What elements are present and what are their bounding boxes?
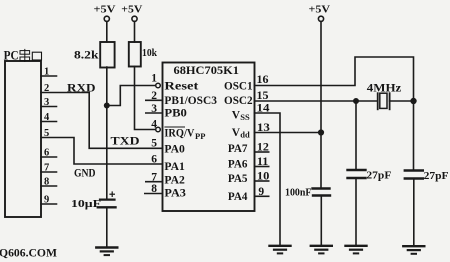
svg-text:1: 1 (44, 67, 49, 78)
wire left 27pF cap lead (355, 101, 357, 170)
svg-text:3: 3 (151, 103, 157, 115)
wire C2 to ground (320, 196, 322, 246)
wire Vss: U1 pin14 to ground (255, 113, 281, 246)
svg-text:100nF: 100nF (285, 188, 312, 199)
svg-text:Reset: Reset (164, 81, 198, 93)
svg-text:8: 8 (44, 177, 49, 188)
svg-text:4: 4 (151, 119, 157, 131)
label Vss (232, 110, 250, 123)
ground under Vss (270, 246, 291, 254)
ground under C3 (346, 246, 367, 254)
ground under C2 (311, 246, 332, 254)
svg-text:Q606.COM: Q606.COM (0, 246, 57, 260)
svg-text:PA6: PA6 (228, 159, 248, 171)
svg-text:+5V: +5V (309, 5, 331, 16)
wire reset tap to U1 pin1 (107, 86, 156, 106)
svg-text:IRQ/V: IRQ/V (164, 128, 195, 140)
svg-text:PA7: PA7 (228, 143, 248, 155)
wire Vdd: U1 pin13 (255, 132, 322, 134)
capacitor C4 27pF plates (405, 169, 423, 171)
svg-text:5: 5 (151, 138, 157, 150)
svg-text:1: 1 (151, 73, 157, 85)
svg-text:RXD: RXD (67, 81, 96, 95)
svg-text:14: 14 (257, 102, 270, 114)
svg-text:PC: PC (4, 49, 19, 63)
svg-text:4MHz: 4MHz (367, 81, 402, 95)
wire C4 to ground (413, 179, 415, 247)
wire +5V to R1 (106, 21, 108, 42)
svg-text:16: 16 (257, 74, 269, 86)
svg-text:PA4: PA4 (228, 191, 248, 203)
wire C3 to ground (355, 178, 357, 246)
wire C1 to ground (106, 207, 108, 247)
svg-text:10μF: 10μF (71, 198, 101, 210)
svg-text:4: 4 (44, 112, 50, 123)
pin 2 (U1) stub (146, 99, 161, 101)
svg-text:6: 6 (44, 148, 49, 159)
svg-text:6: 6 (151, 153, 157, 165)
svg-text:2: 2 (151, 90, 157, 102)
svg-text:8.2k: 8.2k (74, 48, 99, 62)
wire RXD: J1 pin2 to U1 pin5 PA0 (41, 93, 163, 149)
resistor R1 8.2k (100, 42, 114, 68)
IC U1 68HC705K1 box (163, 63, 255, 212)
svg-text:10k: 10k (142, 47, 158, 59)
wire OSC2: U1 pin15 to crystal (255, 100, 378, 102)
svg-text:PB0: PB0 (164, 108, 187, 120)
pin numbers J1 (44, 67, 50, 206)
svg-text:8: 8 (151, 183, 157, 195)
node OSC2 cap junction dot (354, 99, 358, 103)
ground under C4 (403, 246, 424, 254)
label plus of C1 (109, 191, 115, 197)
wire right 27pF cap lead (413, 101, 415, 171)
node reset junction dot (105, 103, 109, 107)
svg-text:PP: PP (195, 131, 205, 141)
pin 8 (U1) stub (145, 193, 161, 195)
pin 11 (U1) stub (255, 166, 270, 168)
glyph chuan (20, 49, 30, 62)
wire R1 bottom to C1 (106, 67, 108, 199)
pin numbers U1 right (257, 74, 271, 198)
wire crystal right to junction (390, 100, 414, 102)
pin 3 (J1) stub (41, 106, 57, 108)
label PC serial port (4, 49, 42, 63)
wire Vdd junction to C2 (320, 133, 322, 189)
wire +5V to R2 (134, 21, 136, 42)
pin numbers U1 left (151, 73, 157, 196)
svg-text:PA0: PA0 (164, 144, 185, 156)
svg-text:PA1: PA1 (164, 161, 185, 173)
pin 1 (J1) stub (41, 75, 57, 77)
svg-text:dd: dd (240, 130, 250, 140)
crystal X1 4MHz (377, 93, 379, 109)
pin 9 (J1) stub (41, 203, 57, 205)
svg-text:5: 5 (44, 128, 49, 139)
wire TXD: J1 pin5 to U1 pin6 PA1 (41, 138, 163, 165)
+5V terminal 2 (132, 16, 137, 21)
svg-text:TXD: TXD (111, 134, 140, 148)
pin 7 (J1) stub (41, 171, 57, 173)
pin 6 (J1) stub (41, 156, 57, 158)
connector J1 PC serial port box (5, 61, 41, 217)
svg-text:GND: GND (74, 168, 96, 180)
U1 pin4 IRQ bubble (156, 127, 161, 132)
ground under C1 (96, 248, 117, 256)
svg-text:7: 7 (151, 171, 157, 183)
pin 3 (U1) stub (146, 112, 161, 114)
label IRQ/Vpp (164, 127, 205, 141)
svg-text:68HC705K1: 68HC705K1 (174, 63, 240, 77)
pin 9 (U1) stub (255, 195, 270, 197)
capacitor C1 10uF plates (100, 199, 115, 201)
svg-text:+5V: +5V (121, 5, 142, 16)
U1 labels (164, 63, 252, 203)
svg-text:OSC1: OSC1 (224, 81, 253, 93)
svg-text:27pF: 27pF (366, 170, 391, 182)
pin 7 (U1) stub (146, 181, 161, 183)
wire OSC1: U1 pin16 around crystal (255, 57, 414, 101)
svg-text:2: 2 (44, 83, 49, 94)
+5V terminal 3 (318, 16, 323, 21)
wire R2 bottom to U1 pin4 (135, 67, 156, 130)
capacitor C2 100nF plates (313, 187, 330, 189)
node Vdd junction dot (319, 130, 324, 135)
svg-text:15: 15 (257, 90, 269, 102)
+5V terminal 1 (104, 16, 109, 21)
U1 pin1 Reset bubble (156, 83, 161, 88)
node OSC1 cap junction dot (411, 99, 416, 104)
pin 8 (J1) stub (41, 185, 57, 187)
label Vdd (232, 127, 250, 140)
pin 4 (J1) stub (41, 121, 57, 123)
glyph kou (32, 52, 41, 60)
capacitor C3 27pF plates (348, 169, 366, 171)
svg-text:9: 9 (44, 195, 49, 206)
svg-text:PA3: PA3 (164, 188, 186, 200)
svg-text:PA2: PA2 (164, 175, 185, 187)
svg-text:SS: SS (240, 112, 250, 122)
svg-text:27pF: 27pF (424, 170, 449, 182)
svg-text:+5V: +5V (94, 5, 116, 16)
wire +5V rail down to Vdd (320, 21, 322, 132)
svg-text:OSC2: OSC2 (224, 95, 253, 107)
svg-text:7: 7 (44, 163, 49, 174)
svg-text:PA5: PA5 (228, 173, 248, 185)
svg-text:PB1/OSC3: PB1/OSC3 (164, 95, 217, 107)
svg-text:13: 13 (257, 122, 270, 134)
pin 10 (U1) stub (255, 180, 270, 182)
svg-text:3: 3 (44, 97, 49, 108)
pin 12 (U1) stub (255, 151, 270, 153)
resistor R2 10k (129, 42, 141, 67)
